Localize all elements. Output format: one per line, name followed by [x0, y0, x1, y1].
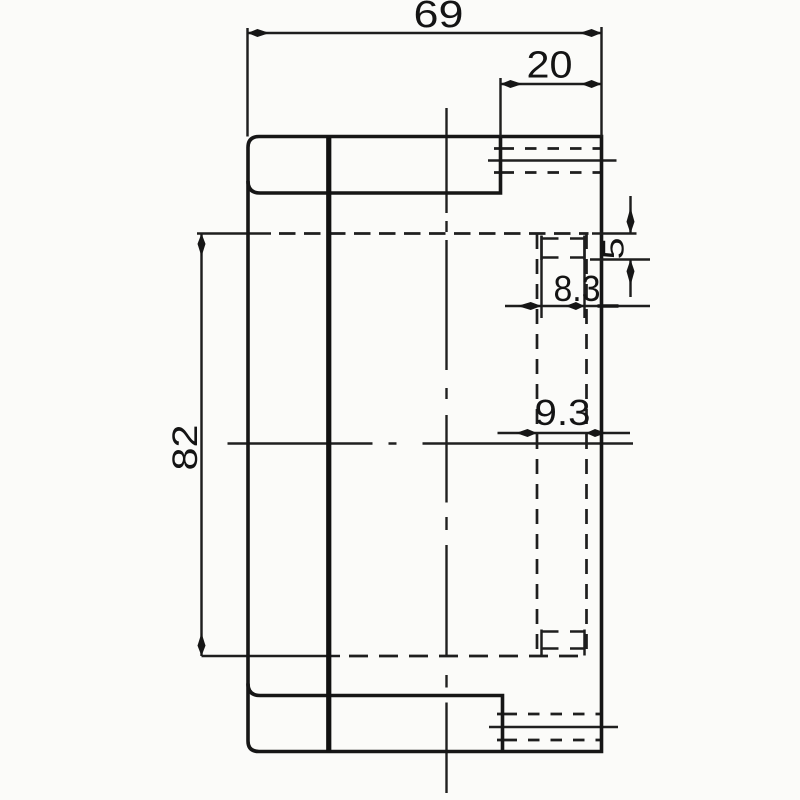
svg-text:69: 69: [414, 0, 464, 36]
svg-text:8.3: 8.3: [554, 268, 601, 309]
svg-text:5: 5: [598, 238, 631, 260]
svg-text:82: 82: [166, 425, 205, 471]
svg-text:9.3: 9.3: [535, 392, 591, 433]
svg-text:20: 20: [527, 45, 573, 87]
